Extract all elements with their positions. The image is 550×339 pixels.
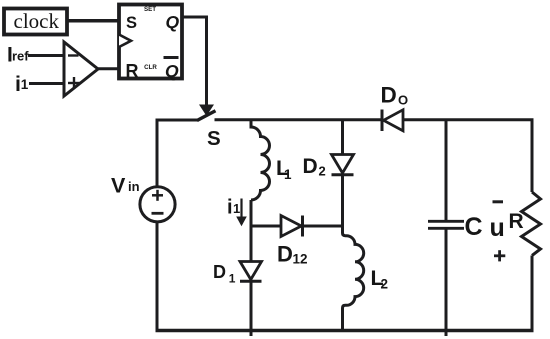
wire Iref input <box>28 54 64 57</box>
u minus sign <box>493 200 504 203</box>
svg-text:O: O <box>398 93 408 108</box>
svg-text:2: 2 <box>319 164 326 179</box>
switch S blade <box>197 111 216 121</box>
resistor R <box>522 192 541 256</box>
label L1 <box>276 156 292 182</box>
wire clock to S input <box>67 19 119 23</box>
svg-text:S: S <box>126 14 137 32</box>
label Do <box>381 83 409 108</box>
arrowhead at switch <box>199 105 214 117</box>
wire top right segment <box>403 118 534 121</box>
wire top middle segment <box>215 118 383 121</box>
wire right vertical bottom <box>531 256 534 331</box>
svg-text:Q: Q <box>165 61 179 81</box>
comparator U2 <box>64 42 98 96</box>
svg-text:D: D <box>213 262 226 282</box>
label D12 <box>277 242 308 267</box>
wire bottom rail <box>156 329 534 332</box>
wire D1 to bottom <box>250 281 253 336</box>
svg-text:SET: SET <box>144 6 156 13</box>
flip-flop U1 box <box>119 5 182 79</box>
svg-text:R: R <box>126 61 139 81</box>
wire Q output to switch gate <box>182 17 207 106</box>
wire capacitor branch top <box>445 120 448 221</box>
diode Do <box>382 110 403 132</box>
wire right vertical top <box>531 120 534 192</box>
Vin plus mark <box>152 190 163 201</box>
Vin minus mark <box>152 212 164 215</box>
svg-text:ref: ref <box>12 49 29 64</box>
svg-text:Q: Q <box>166 12 180 32</box>
svg-text:1: 1 <box>21 77 29 92</box>
wire left vertical bottom <box>156 222 159 331</box>
i1 arrow <box>236 199 247 227</box>
wire D2 branch top <box>341 120 344 154</box>
svg-text:D: D <box>277 242 293 267</box>
label L2 <box>371 266 389 292</box>
flip-flop clock triangle marker <box>119 35 131 48</box>
u plus sign <box>494 250 505 261</box>
svg-text:C: C <box>465 213 483 241</box>
clock box <box>4 9 67 35</box>
svg-text:clock: clock <box>14 9 60 33</box>
svg-text:CLR: CLR <box>144 64 157 71</box>
wire L1 bottom to D1 <box>250 200 253 261</box>
svg-text:1: 1 <box>229 272 236 286</box>
wire top left segment <box>157 120 199 122</box>
label D1 <box>213 262 236 286</box>
svg-text:D: D <box>381 83 397 108</box>
svg-text:D: D <box>303 155 318 178</box>
svg-text:2: 2 <box>381 277 389 292</box>
diode D12 <box>281 216 303 237</box>
diode D2 <box>332 155 354 175</box>
label D2 <box>303 155 326 179</box>
label Vin <box>111 174 140 198</box>
diode D1 <box>240 262 262 282</box>
wire comparator output to R input <box>98 67 119 70</box>
wire capacitor branch bottom <box>445 228 448 336</box>
label i1 arrow current <box>227 197 240 219</box>
svg-text:1: 1 <box>233 201 240 216</box>
wire i1 input <box>29 82 64 85</box>
inductor L2 <box>343 233 364 331</box>
svg-text:1: 1 <box>284 167 292 182</box>
svg-text:i: i <box>227 197 233 219</box>
capacitor C <box>428 221 464 228</box>
svg-text:R: R <box>509 210 524 233</box>
svg-text:in: in <box>128 179 140 194</box>
svg-text:V: V <box>111 174 126 198</box>
wire left vertical top <box>156 120 159 187</box>
svg-text:S: S <box>207 127 221 150</box>
source Vin circle <box>140 187 175 222</box>
flip-flop Q-bar overbar <box>164 56 179 59</box>
label i1 input <box>15 72 29 96</box>
wire D2 to L2 <box>341 175 344 233</box>
svg-text:12: 12 <box>293 252 308 267</box>
label Iref <box>7 44 29 67</box>
wire middle horizontal to D12 <box>251 225 343 228</box>
svg-text:u: u <box>490 214 505 242</box>
inductor L1 <box>251 120 270 200</box>
